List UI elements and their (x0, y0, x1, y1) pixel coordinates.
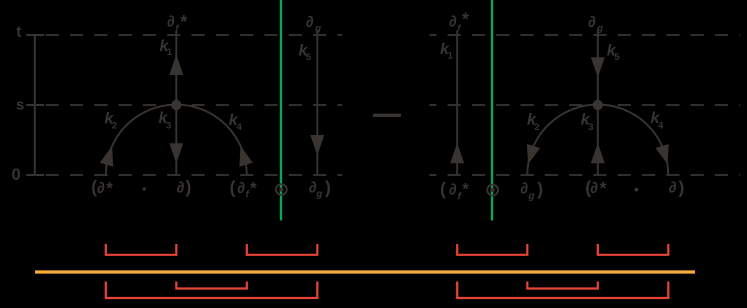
svg-text:g: g (315, 189, 322, 200)
svg-text:*: * (462, 180, 469, 199)
svg-text:*: * (250, 178, 257, 197)
svg-text:∂: ∂ (237, 180, 245, 197)
svg-text:∂: ∂ (449, 181, 457, 198)
svg-text:*: * (106, 178, 113, 197)
svg-text:∂: ∂ (449, 13, 457, 30)
svg-text:(: ( (440, 179, 446, 199)
svg-text:): ) (679, 177, 685, 197)
svg-text:4: 4 (237, 122, 243, 133)
svg-text:∂: ∂ (520, 181, 528, 198)
svg-text:∂: ∂ (590, 180, 598, 197)
svg-text:): ) (537, 179, 543, 199)
svg-text:*: * (462, 10, 469, 30)
svg-text:3: 3 (166, 121, 171, 132)
svg-text:g: g (314, 23, 321, 34)
svg-text:2: 2 (112, 121, 117, 132)
svg-text:*: * (600, 178, 607, 197)
svg-text:): ) (186, 177, 192, 197)
svg-text:s: s (16, 96, 24, 113)
svg-text:5: 5 (614, 52, 620, 63)
svg-text:1: 1 (448, 51, 454, 62)
svg-text:2: 2 (534, 122, 539, 133)
svg-text:4: 4 (658, 121, 664, 132)
svg-text:∂: ∂ (177, 180, 185, 197)
svg-text:5: 5 (306, 52, 312, 63)
svg-text:0: 0 (12, 166, 21, 184)
svg-text:3: 3 (588, 122, 593, 133)
svg-text:1: 1 (167, 47, 173, 58)
svg-text:∂: ∂ (306, 14, 314, 31)
svg-text:g: g (527, 191, 534, 202)
svg-text:∂: ∂ (588, 14, 596, 31)
svg-text:*: * (180, 12, 187, 32)
svg-text:g: g (596, 23, 603, 34)
svg-text:∂: ∂ (97, 180, 105, 197)
svg-text:): ) (325, 177, 331, 197)
svg-text:∂: ∂ (669, 180, 677, 197)
svg-text:t: t (16, 24, 21, 41)
svg-text:∂: ∂ (167, 13, 175, 30)
svg-text:(: ( (230, 177, 236, 197)
